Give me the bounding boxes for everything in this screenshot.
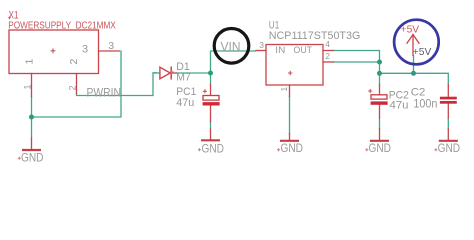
svg-text:GND: GND xyxy=(281,141,304,155)
svg-text:+5V: +5V xyxy=(413,46,432,58)
svg-text:1: 1 xyxy=(23,59,35,65)
svg-text:C2: C2 xyxy=(411,86,426,98)
svg-text:1: 1 xyxy=(23,84,33,89)
svg-text:3: 3 xyxy=(108,40,114,52)
svg-text:NCP1117ST50T3G: NCP1117ST50T3G xyxy=(269,30,361,42)
svg-text:M7: M7 xyxy=(176,72,191,84)
svg-text:47u: 47u xyxy=(390,99,409,111)
svg-text:2: 2 xyxy=(68,85,78,90)
svg-text:3: 3 xyxy=(82,44,88,56)
svg-text:OUT: OUT xyxy=(294,45,313,55)
svg-text:2: 2 xyxy=(325,51,330,61)
svg-text:1: 1 xyxy=(279,87,289,92)
svg-text:IN: IN xyxy=(275,45,285,55)
svg-text:X1: X1 xyxy=(9,10,19,22)
svg-text:GND: GND xyxy=(202,141,225,155)
svg-text:PWRIN: PWRIN xyxy=(87,85,122,99)
svg-text:GND: GND xyxy=(438,141,461,155)
svg-text:POWERSUPPLY_DC21MMX: POWERSUPPLY_DC21MMX xyxy=(8,21,116,32)
svg-text:3: 3 xyxy=(259,40,264,50)
svg-text:+5V: +5V xyxy=(401,24,420,36)
svg-text:47u: 47u xyxy=(176,97,194,109)
svg-text:100n: 100n xyxy=(413,98,437,110)
svg-text:4: 4 xyxy=(325,39,330,49)
svg-text:GND: GND xyxy=(21,150,44,164)
svg-text:VIN: VIN xyxy=(221,40,241,54)
svg-text:GND: GND xyxy=(369,141,392,155)
svg-text:2: 2 xyxy=(68,59,80,65)
